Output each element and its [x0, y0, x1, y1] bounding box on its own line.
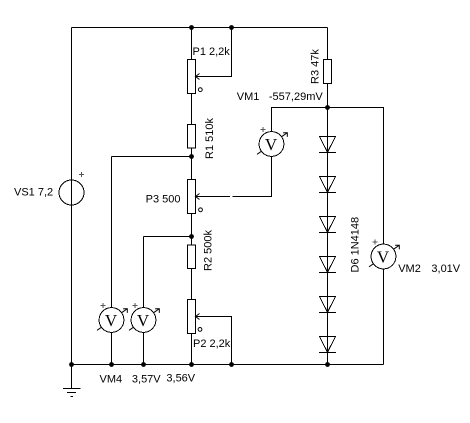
wire VM3 bottom: [143, 333, 145, 365]
wire P1 wiper: [196, 28, 232, 77]
svg-text:VM4: VM4: [100, 373, 123, 385]
wire P3 wiper left part: [196, 196, 231, 198]
svg-text:3,56V: 3,56V: [166, 372, 195, 384]
svg-text:-557,29mV: -557,29mV: [269, 91, 323, 103]
voltage source VS1: [59, 172, 84, 205]
junction node B: [189, 234, 194, 239]
junction ground rail left: [69, 362, 74, 367]
wire bottom rail: [72, 364, 384, 366]
wire R3 bottom to node C: [327, 84, 329, 108]
diode D3: [319, 217, 336, 233]
svg-text:VM2: VM2: [398, 263, 421, 275]
wire node B left: [144, 236, 192, 238]
wire diode chain column: [327, 108, 329, 365]
svg-text:3,57V: 3,57V: [132, 373, 161, 385]
wire P2 wiper: [196, 317, 232, 365]
wire P3 to node B: [191, 214, 193, 237]
svg-text:VM1: VM1: [237, 91, 260, 103]
wire P1 to R1: [191, 94, 193, 125]
diode D1: [319, 137, 336, 153]
wire node B to R2: [191, 237, 193, 246]
diode D4: [319, 257, 336, 273]
potentiometer P3: [188, 180, 203, 214]
voltmeter VM4: [97, 303, 127, 333]
ground: [63, 365, 81, 397]
wire P3 top stub: [191, 157, 193, 180]
svg-text:R2 500k: R2 500k: [203, 230, 215, 271]
junction P2 bottom rail: [189, 362, 194, 367]
junction P1 wiper top: [229, 25, 234, 30]
wire R1 bottom stub: [191, 148, 193, 157]
potentiometer P2: [188, 300, 202, 334]
diode D5: [319, 297, 336, 313]
diode D2: [319, 177, 336, 193]
wire node A left: [112, 156, 192, 158]
svg-text:V: V: [377, 248, 390, 267]
junction node C: [325, 105, 330, 110]
wire R3 top stub: [327, 28, 329, 60]
diode D6: [319, 337, 336, 353]
svg-text:V: V: [137, 311, 150, 330]
svg-text:V: V: [265, 135, 278, 154]
junction P1 top: [189, 25, 194, 30]
svg-text:D6 1N4148: D6 1N4148: [350, 217, 362, 273]
wire top rail: [72, 27, 328, 29]
wire P3 wiper right part to VM1: [233, 157, 272, 197]
wire P1 top stub: [191, 28, 193, 60]
wire R2 to P2: [191, 269, 193, 300]
svg-text:V: V: [105, 311, 118, 330]
potentiometer P1: [188, 60, 203, 94]
resistor R3: [324, 60, 332, 84]
junction VM3 rail: [141, 362, 146, 367]
resistor R1: [188, 125, 196, 149]
junction VM4 rail: [109, 362, 114, 367]
resistor R2: [188, 245, 196, 269]
wire node C to VM2: [328, 108, 384, 245]
voltmeter VM3: [129, 303, 159, 333]
svg-text:VS1 7,2: VS1 7,2: [14, 186, 53, 198]
voltmeter VM2: [369, 239, 399, 269]
junction node A: [189, 154, 194, 159]
svg-text:P2 2,2k: P2 2,2k: [193, 338, 231, 350]
wire left rail: [71, 28, 73, 365]
wire VM2 bottom: [383, 269, 385, 365]
junction diode rail: [325, 362, 330, 367]
voltmeter VM1: [257, 127, 287, 157]
wire node A down to VM4: [111, 157, 113, 308]
wire P2 bottom stub: [191, 334, 193, 365]
svg-text:R3 47k: R3 47k: [310, 49, 322, 84]
wire VM4 bottom: [111, 333, 113, 365]
svg-text:P1 2,2k: P1 2,2k: [193, 46, 231, 58]
svg-text:P3 500: P3 500: [146, 193, 181, 205]
svg-text:3,01V: 3,01V: [431, 263, 460, 275]
junction P2 wiper rail: [229, 362, 234, 367]
wire VM1 top to node C: [272, 108, 328, 132]
svg-text:R1 510k: R1 510k: [204, 118, 216, 159]
wire node B down to VM3: [143, 237, 145, 308]
